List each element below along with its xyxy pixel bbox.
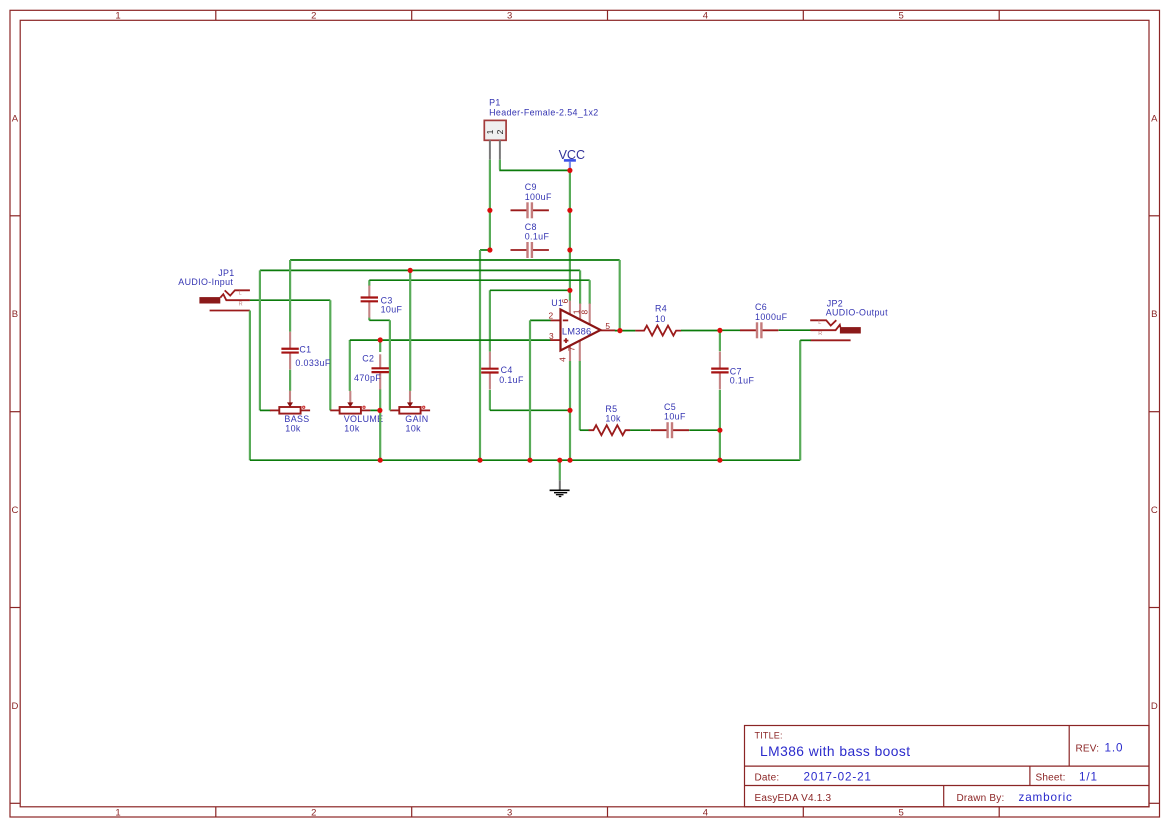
junction C4 / pin4 xyxy=(567,408,572,413)
ground xyxy=(550,480,570,496)
svg-text:4: 4 xyxy=(703,807,708,818)
svg-text:EasyEDA V4.1.3: EasyEDA V4.1.3 xyxy=(755,793,832,804)
svg-text:5: 5 xyxy=(899,807,904,818)
junction rail C7 xyxy=(717,458,722,463)
junction C8 right xyxy=(567,247,572,252)
wire GAIN wiper column xyxy=(409,270,411,391)
wire C8 node to ground rail xyxy=(480,250,490,460)
svg-text:GAIN: GAIN xyxy=(405,414,428,424)
junction rail pin4 xyxy=(567,458,572,463)
svg-text:10uF: 10uF xyxy=(664,412,686,422)
audio jack JP1 AUDIO-Input xyxy=(178,268,250,311)
potentiometer VOLUME xyxy=(330,391,383,434)
U1 pin 5 xyxy=(601,329,616,331)
U1 pin 3 xyxy=(550,339,561,341)
svg-text:R4: R4 xyxy=(655,303,667,313)
svg-text:4: 4 xyxy=(558,357,568,362)
U1 pin 1 xyxy=(579,304,581,321)
junction R4 / C6 / C7 xyxy=(717,328,722,333)
svg-text:P1: P1 xyxy=(489,98,501,108)
svg-text:Sheet:: Sheet: xyxy=(1036,773,1066,784)
wire P1 pin1 column xyxy=(489,160,491,250)
svg-text:LM386 with bass boost: LM386 with bass boost xyxy=(760,744,911,759)
U1 pin 8 xyxy=(589,304,591,325)
svg-text:2: 2 xyxy=(311,10,316,21)
svg-text:8: 8 xyxy=(580,310,590,315)
wire GAIN wiper net to U1 pin 1 xyxy=(260,270,580,304)
wire U1 pin5 output xyxy=(615,330,636,332)
P1 pin 2 xyxy=(499,140,501,159)
junction output node xyxy=(617,328,622,333)
wire VOLUME right terminal to C2 bottom xyxy=(370,409,380,411)
op-amp U1 LM386 xyxy=(549,298,616,362)
svg-text:5: 5 xyxy=(605,321,610,331)
svg-text:6: 6 xyxy=(560,298,570,303)
wire JP1 sleeve to ground rail xyxy=(249,311,251,461)
svg-text:1: 1 xyxy=(115,10,120,21)
junction C8 left xyxy=(487,247,492,252)
wire C1 to BASS wiper xyxy=(289,370,291,391)
svg-text:1.0: 1.0 xyxy=(1105,741,1124,754)
svg-text:B: B xyxy=(1151,309,1157,320)
svg-text:10k: 10k xyxy=(285,424,301,434)
svg-text:C8: C8 xyxy=(525,222,537,232)
svg-text:4: 4 xyxy=(703,10,708,21)
resistor R4 xyxy=(635,303,681,335)
connector P1 Header-Female-2.54_1x2 xyxy=(484,98,598,160)
wire node to C6 xyxy=(720,329,740,331)
svg-text:0.1uF: 0.1uF xyxy=(499,375,524,385)
svg-text:C6: C6 xyxy=(755,302,767,312)
svg-text:10: 10 xyxy=(655,314,666,324)
junction C9 left xyxy=(487,208,492,213)
svg-text:Date:: Date: xyxy=(755,773,780,784)
svg-text:10k: 10k xyxy=(344,424,360,434)
wire C3 bottom to GAIN left terminal xyxy=(369,318,390,411)
capacitor C8 xyxy=(511,222,550,258)
svg-text:2: 2 xyxy=(495,129,505,134)
svg-text:C5: C5 xyxy=(664,402,676,412)
svg-text:3: 3 xyxy=(507,10,512,21)
svg-text:C9: C9 xyxy=(525,182,537,192)
junction VOLUME right / C2 xyxy=(377,408,382,413)
wire C5 to node xyxy=(689,429,720,431)
capacitor C1 xyxy=(281,332,330,370)
svg-text:L: L xyxy=(239,291,242,297)
U1 pin 4 xyxy=(569,345,571,361)
wire feedback line down to C1 xyxy=(289,260,291,332)
wire C7 bottom xyxy=(719,390,721,460)
svg-text:1/1: 1/1 xyxy=(1079,771,1098,784)
svg-text:0.1uF: 0.1uF xyxy=(525,232,550,242)
junction rail C2 xyxy=(378,458,383,463)
wire VCC column down to U1 pin 6 xyxy=(569,170,571,301)
svg-text:REV:: REV: xyxy=(1076,743,1100,754)
svg-text:C1: C1 xyxy=(299,344,311,354)
svg-text:zamboric: zamboric xyxy=(1019,791,1073,804)
svg-text:0.1uF: 0.1uF xyxy=(730,376,755,386)
svg-text:D: D xyxy=(11,701,18,712)
svg-text:5: 5 xyxy=(899,10,904,21)
wire R4 to C6 node xyxy=(681,330,720,332)
wire C3 top to U1 pin 8 xyxy=(369,280,589,304)
VCC power symbol xyxy=(559,148,585,169)
svg-text:C2: C2 xyxy=(362,354,374,364)
junction C9 right xyxy=(567,208,572,213)
junction pin3 / C2 top xyxy=(378,337,383,342)
wire U1 pin7 to R5 xyxy=(580,361,589,430)
svg-text:LM386: LM386 xyxy=(562,326,591,336)
svg-text:100uF: 100uF xyxy=(525,192,552,202)
svg-text:Header-Female-2.54_1x2: Header-Female-2.54_1x2 xyxy=(489,108,598,118)
audio jack JP2 AUDIO-Output xyxy=(800,298,888,340)
svg-text:BASS: BASS xyxy=(284,414,309,424)
svg-text:Drawn By:: Drawn By: xyxy=(957,793,1005,804)
svg-text:A: A xyxy=(12,113,19,124)
svg-text:1: 1 xyxy=(485,129,495,134)
wire JP2 sleeve riser xyxy=(799,340,801,460)
U1 pin 7 xyxy=(579,341,581,362)
junction rail ground xyxy=(557,458,562,463)
U1 pin 2 xyxy=(550,319,561,321)
junction VCC node xyxy=(567,168,572,173)
svg-text:470pF: 470pF xyxy=(354,373,381,383)
svg-text:1000uF: 1000uF xyxy=(755,312,788,322)
wire output feedback to C1 (top) xyxy=(290,260,620,331)
P1 pin 1 xyxy=(489,140,491,159)
svg-text:10uF: 10uF xyxy=(381,305,403,315)
svg-text:R: R xyxy=(239,302,243,308)
wire R5 to C5 xyxy=(630,429,650,431)
svg-text:2: 2 xyxy=(311,807,316,818)
resistor R5 xyxy=(589,404,631,435)
wire node down to C7 xyxy=(719,330,721,351)
wire P1 pin2 to VCC node xyxy=(499,160,570,171)
capacitor C2 xyxy=(354,354,389,390)
svg-text:AUDIO-Input: AUDIO-Input xyxy=(178,277,233,287)
potentiometer GAIN xyxy=(390,391,430,434)
svg-text:2017-02-21: 2017-02-21 xyxy=(804,771,872,784)
svg-text:2: 2 xyxy=(549,311,554,321)
potentiometer BASS xyxy=(270,391,310,434)
svg-text:1: 1 xyxy=(115,807,120,818)
svg-text:D: D xyxy=(1151,701,1158,712)
svg-text:3: 3 xyxy=(549,331,554,341)
svg-text:VOLUME: VOLUME xyxy=(344,414,384,424)
junction rail pin2 xyxy=(527,458,532,463)
wire ground rail xyxy=(250,459,800,461)
capacitor C9 xyxy=(511,182,552,218)
svg-text:C: C xyxy=(11,505,18,516)
junction rail C8 net xyxy=(477,458,482,463)
svg-text:L: L xyxy=(818,320,821,326)
junction GAIN wiper tap xyxy=(408,268,413,273)
svg-text:B: B xyxy=(12,309,18,320)
svg-text:AUDIO-Output: AUDIO-Output xyxy=(826,307,888,317)
svg-text:A: A xyxy=(1151,113,1158,124)
wire C4 bottom to U1 pin 4 column xyxy=(490,390,570,410)
capacitor C3 xyxy=(361,286,403,318)
wire C6 to JP2 tip xyxy=(779,329,811,331)
wire BASS left leg xyxy=(260,270,271,410)
capacitor C4 xyxy=(481,352,524,390)
wire VCC to C4 top (bypass) xyxy=(490,290,570,351)
svg-text:0.033uF: 0.033uF xyxy=(295,358,330,368)
svg-text:R: R xyxy=(818,331,822,337)
junction C5 / C7 xyxy=(717,428,722,433)
wire U1 pin2 to ground rail xyxy=(530,320,551,460)
svg-text:C4: C4 xyxy=(501,365,513,375)
wire VOLUME wiper to U1 pin 3 xyxy=(350,340,551,391)
svg-text:7: 7 xyxy=(567,346,577,351)
wire U1 pin4 to ground rail xyxy=(569,361,571,460)
svg-text:10k: 10k xyxy=(406,424,422,434)
capacitor C6 xyxy=(740,302,788,338)
wire C2 top xyxy=(379,340,381,352)
wire ground stub xyxy=(559,460,561,480)
svg-text:TITLE:: TITLE: xyxy=(755,731,783,741)
svg-text:10k: 10k xyxy=(605,413,621,423)
capacitor C5 xyxy=(651,402,689,438)
wire JP1 tip to VOLUME left terminal xyxy=(250,300,330,410)
svg-text:3: 3 xyxy=(507,807,512,818)
U1 pin 6 xyxy=(569,301,571,315)
svg-text:C: C xyxy=(1151,505,1158,516)
wire C2 bottom to ground rail xyxy=(379,389,381,460)
capacitor C7 xyxy=(711,352,754,390)
junction U1 pin6 / VCC xyxy=(567,288,572,293)
